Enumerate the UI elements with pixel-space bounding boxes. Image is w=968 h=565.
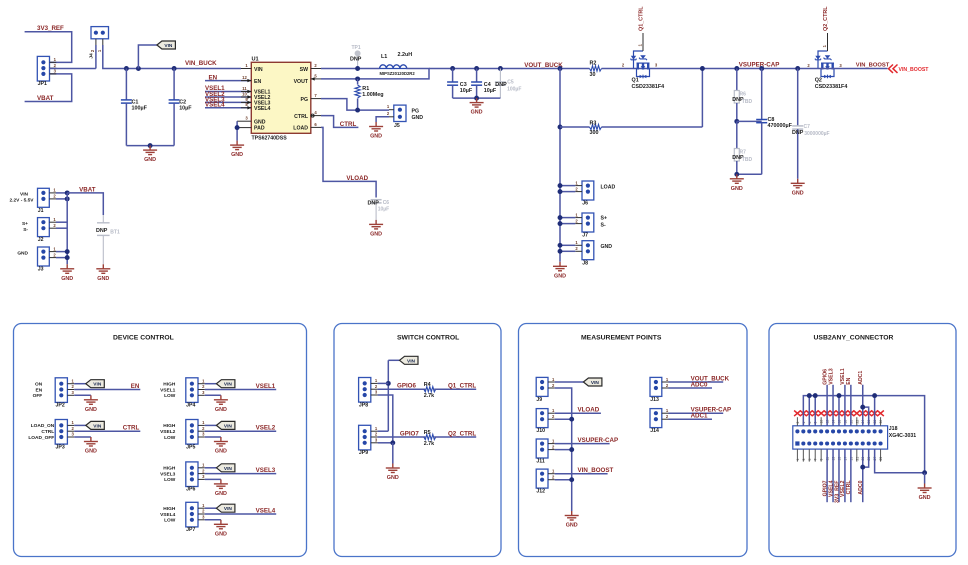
connector J9 [536, 377, 548, 396]
svg-text:J8: J8 [582, 260, 588, 266]
svg-text:VSEL1: VSEL1 [160, 387, 176, 393]
wire JP3 pin2 net CTRL [74, 430, 140, 432]
svg-text:TP1: TP1 [352, 45, 361, 51]
svg-text:Q2_CTRL: Q2_CTRL [448, 430, 476, 437]
svg-text:GND: GND [554, 273, 566, 279]
svg-text:10µF: 10µF [484, 88, 497, 94]
svg-text:GND: GND [215, 449, 227, 455]
svg-text:U1: U1 [252, 57, 259, 63]
svg-text:VIN: VIN [591, 380, 600, 386]
J18 pin dots [795, 429, 882, 445]
svg-text:VLOAD: VLOAD [346, 175, 368, 182]
capacitor C7 DNP [795, 66, 800, 71]
svg-text:GND: GND [231, 152, 243, 158]
svg-text:HIGH: HIGH [163, 423, 176, 429]
connector J5 [394, 105, 406, 121]
svg-text:GND: GND [370, 232, 382, 238]
wire JP2 pin2 net EN [74, 389, 140, 391]
svg-text:C5: C5 [507, 80, 514, 86]
svg-text:Q1_CTRL: Q1_CTRL [638, 6, 644, 31]
svg-text:DNP: DNP [792, 130, 804, 136]
wire J8 pins to bus [560, 244, 575, 246]
svg-text:DNP: DNP [495, 82, 507, 88]
J18 top pin stubs and numbers [797, 417, 880, 426]
net VLOAD wire at J10 [555, 412, 601, 414]
net ADC1 wire at J18 [863, 385, 869, 426]
net 3V3_REF wire at J18 [838, 449, 840, 502]
svg-text:S-: S- [23, 227, 28, 233]
ground at JP9 [386, 464, 400, 473]
net Q2_CTRL wire [434, 436, 476, 438]
ground below BT1 [96, 264, 110, 273]
power flag VIN at JP2 [74, 383, 86, 385]
svg-text:2: 2 [796, 422, 800, 424]
svg-text:GND: GND [215, 407, 227, 413]
svg-text:GND: GND [144, 157, 156, 163]
svg-text:GND: GND [85, 449, 97, 455]
net Q1_CTRL wire [434, 388, 476, 390]
wire R3 riser to rail [701, 69, 703, 128]
wire 3V3_REF to JP1 pin1 [25, 32, 72, 63]
svg-text:VIN_BOOST: VIN_BOOST [578, 467, 614, 474]
wire J9 pin2 to bus [555, 388, 572, 511]
svg-text:VSUPER-CAP: VSUPER-CAP [739, 62, 780, 69]
svg-text:VIN_BOOST: VIN_BOOST [899, 67, 930, 73]
connector J8 [582, 241, 594, 260]
wire J11 pin2 to bus [555, 449, 572, 451]
resistor R4 [424, 387, 436, 392]
svg-text:VSEL4: VSEL4 [256, 507, 276, 514]
panel USB2ANY_CONNECTOR [769, 324, 956, 557]
wire JP8 pin3 down [378, 395, 393, 445]
capacitor C3 [450, 66, 455, 71]
svg-text:VSEL4: VSEL4 [254, 106, 271, 112]
net VSUPER-CAP wire at J14 [669, 412, 724, 414]
svg-text:CTRL: CTRL [340, 121, 357, 128]
svg-text:J12: J12 [536, 489, 545, 495]
svg-text:J11: J11 [536, 459, 544, 465]
ground below C7 [791, 179, 805, 188]
svg-text:LOW: LOW [164, 393, 176, 399]
svg-text:GND: GND [61, 276, 73, 282]
svg-text:VIN: VIN [93, 423, 102, 429]
svg-text:S+: S+ [22, 221, 28, 227]
connector JP2 [55, 378, 67, 403]
svg-text:GND: GND [215, 491, 227, 497]
capacitor C5 DNP [498, 66, 503, 71]
ground at JP4 [214, 395, 228, 404]
svg-text:JP7: JP7 [186, 527, 195, 533]
wire JP4 pin2 net VSEL1 [205, 389, 276, 391]
svg-text:PAD: PAD [254, 126, 265, 132]
ground at bus bottom [553, 262, 567, 271]
wire JP6 pin2 net VSEL3 [205, 473, 276, 475]
svg-text:LOW: LOW [164, 435, 176, 441]
power flag VIN at JP3 [74, 424, 86, 426]
net VSEL1 wire at J18 [844, 385, 846, 426]
wire J18 pin4 up [814, 396, 816, 426]
svg-text:10: 10 [242, 91, 247, 96]
svg-text:S-: S- [601, 222, 606, 228]
svg-text:29: 29 [879, 457, 883, 461]
svg-text:VSEL4: VSEL4 [205, 102, 225, 109]
ground at JP6 [214, 479, 228, 488]
net GPIO6 / resistor R4 wire [378, 388, 426, 390]
svg-text:1.00Meg: 1.00Meg [362, 92, 383, 98]
wire SW to L1 [321, 68, 380, 70]
connector JP7 [186, 502, 198, 527]
svg-text:C8: C8 [768, 117, 775, 123]
net VSEL2 wire at J18 [844, 449, 846, 502]
wire JP8 pin1 to VIN bus [378, 382, 389, 384]
capacitor C8 [759, 66, 764, 71]
svg-text:22: 22 [855, 420, 859, 424]
svg-text:LOAD: LOAD [601, 184, 616, 190]
svg-text:7: 7 [814, 459, 818, 461]
connector J18 body [793, 426, 888, 449]
net GPIO6 wire at J18 [826, 385, 828, 426]
svg-text:Q1: Q1 [632, 78, 639, 84]
svg-text:VIN_BOOST: VIN_BOOST [856, 63, 890, 69]
connector J4 jumper [91, 27, 109, 39]
svg-text:EN: EN [846, 377, 852, 384]
net GPIO7 wire at J18 [826, 449, 828, 502]
svg-text:EN: EN [254, 79, 261, 85]
U1 left pin stubs [241, 68, 251, 70]
net GPIO7 / resistor R5 wire [378, 436, 426, 438]
wire J5 pin2 to ground [376, 117, 389, 122]
wire J7 pins to bus [560, 217, 575, 219]
U1 right pin stubs [311, 68, 321, 70]
svg-text:HIGH: HIGH [163, 506, 176, 512]
svg-text:GND: GND [85, 407, 97, 413]
svg-text:10µF: 10µF [179, 105, 192, 111]
wire J4 pin2 down, rail to U1 [103, 45, 241, 69]
svg-text:J5: J5 [394, 123, 400, 129]
net ADC1 wire at J14 [669, 418, 713, 420]
svg-text:VIN: VIN [407, 358, 416, 364]
svg-text:21: 21 [855, 457, 859, 461]
svg-text:VIN_BUCK: VIN_BUCK [185, 60, 217, 67]
svg-text:VIN: VIN [224, 382, 233, 388]
net VBAT wire to BT1 [67, 193, 103, 215]
svg-text:JP9: JP9 [359, 450, 368, 456]
svg-text:300: 300 [590, 130, 599, 136]
svg-text:ADC0: ADC0 [858, 480, 864, 494]
ground at J1 bus [60, 264, 74, 273]
wire J10 pin2 to bus [555, 418, 572, 420]
svg-text:VSEL2: VSEL2 [256, 425, 276, 432]
svg-text:GND: GND [792, 190, 804, 196]
svg-text:5: 5 [808, 459, 812, 461]
wire PG to J5 pin1 [321, 99, 389, 111]
svg-text:VOUT_BUCK: VOUT_BUCK [524, 62, 563, 69]
svg-text:BT1: BT1 [110, 230, 120, 236]
svg-text:J3: J3 [38, 267, 44, 273]
connector JP6 [186, 462, 198, 487]
svg-text:J6: J6 [582, 201, 588, 207]
net VIN_BOOST wire at J12 [555, 473, 608, 475]
wire J18 pin8 up [838, 396, 840, 426]
svg-text:C7: C7 [804, 124, 811, 130]
transistor Q2 CSD23381F4 [818, 51, 834, 77]
power flag VIN at JP5 [205, 424, 217, 426]
net VSEL3 wire to U1 [205, 101, 251, 103]
ground at JP5 [214, 437, 228, 446]
svg-text:GND: GND [412, 115, 424, 121]
svg-text:HIGH: HIGH [163, 382, 176, 388]
connector JP9 [359, 425, 371, 450]
svg-text:EN: EN [131, 383, 140, 390]
svg-text:DNP: DNP [96, 228, 108, 234]
svg-text:Q1_CTRL: Q1_CTRL [448, 383, 476, 390]
op-amp U1 TPS62740DSS body [251, 62, 310, 133]
power flag VIN [136, 66, 141, 71]
connector J3 [38, 247, 50, 266]
svg-text:XG4C-3031: XG4C-3031 [889, 433, 917, 439]
wire VOUT rail [429, 68, 590, 70]
svg-text:CTRL: CTRL [846, 480, 852, 495]
svg-text:GND: GND [387, 475, 399, 481]
wire VOUT_BUCK bus [558, 66, 563, 71]
svg-text:MEASUREMENT POINTS: MEASUREMENT POINTS [581, 334, 662, 341]
wire bottom ground net [875, 449, 925, 473]
connector J10 [536, 409, 548, 428]
connector JP8 [359, 378, 371, 403]
net CTRL wire [321, 116, 358, 128]
svg-text:S+: S+ [601, 216, 608, 222]
svg-text:GND: GND [370, 134, 382, 140]
svg-text:R5: R5 [424, 430, 431, 436]
wire Q2 to off-page [818, 68, 888, 70]
svg-text:VLOAD: VLOAD [578, 407, 600, 414]
svg-text:J7: J7 [582, 233, 588, 239]
svg-text:VIN: VIN [93, 382, 102, 388]
svg-text:PG: PG [412, 109, 420, 115]
svg-text:2.7k: 2.7k [424, 441, 435, 447]
svg-text:J13: J13 [650, 397, 659, 403]
connector JP5 [186, 420, 198, 445]
wire VIN bus to JP8 JP9 [387, 360, 389, 431]
svg-text:100µF: 100µF [132, 105, 148, 111]
svg-text:R3: R3 [590, 121, 597, 127]
svg-text:R4: R4 [424, 382, 431, 388]
resistor R3 [558, 125, 563, 130]
panel DEVICE CONTROL [14, 324, 307, 557]
net VSEL2 wire to U1 [205, 96, 251, 98]
svg-text:Q2: Q2 [815, 78, 822, 84]
svg-text:GND: GND [97, 276, 109, 282]
wire J3 pins to bus [56, 251, 67, 253]
svg-text:J14: J14 [650, 428, 659, 434]
svg-text:10: 10 [820, 420, 824, 424]
wire JP2 pin3 to ground [74, 394, 91, 396]
power flag VIN switch control [388, 359, 399, 361]
wire C8 bottom to ground node [737, 173, 762, 175]
svg-text:10µF: 10µF [378, 206, 390, 212]
svg-text:EN: EN [36, 387, 43, 393]
svg-text:LOAD: LOAD [293, 126, 308, 132]
capacitor C1 [124, 66, 129, 71]
svg-text:ADC0: ADC0 [691, 381, 708, 388]
resistor R1 [355, 76, 360, 81]
svg-text:VIN: VIN [20, 192, 29, 198]
ground below C6 [369, 220, 383, 229]
svg-text:GND: GND [215, 531, 227, 537]
wire J1 pins to bus [56, 192, 67, 194]
wire JP7 pin2 net VSEL4 [205, 513, 276, 515]
U1 GND PAD wires to ground [237, 120, 251, 122]
svg-text:VIN: VIN [254, 67, 263, 73]
svg-text:9: 9 [820, 459, 824, 461]
svg-text:OFF: OFF [33, 393, 43, 399]
power flag VIN at JP7 [205, 507, 217, 509]
panel SWITCH CONTROL [334, 324, 501, 557]
svg-text:11: 11 [242, 86, 247, 91]
testpoint TP1 DNP [355, 50, 361, 56]
svg-text:VSEL3: VSEL3 [256, 467, 276, 474]
ground below C1 C2 [148, 143, 153, 148]
resistor R7 DNP [736, 121, 738, 148]
svg-text:470000µF: 470000µF [768, 123, 793, 129]
svg-text:ADC1: ADC1 [858, 371, 864, 385]
svg-text:SW: SW [300, 67, 308, 73]
resistor R5 [424, 434, 436, 439]
svg-text:DEVICE CONTROL: DEVICE CONTROL [113, 334, 174, 341]
svg-text:TBD: TBD [742, 157, 753, 163]
ground at JP3 [84, 437, 98, 446]
connector JP1 [37, 56, 49, 81]
svg-text:CSD23381F4: CSD23381F4 [632, 84, 665, 90]
svg-text:GND: GND [471, 110, 483, 116]
svg-text:J1: J1 [38, 208, 44, 214]
svg-text:JP5: JP5 [186, 444, 195, 450]
svg-text:JP2: JP2 [56, 403, 65, 409]
net VLOAD wire from LOAD pin [321, 127, 376, 197]
connector J2 [38, 218, 50, 237]
connector JP3 [55, 420, 67, 445]
bus J1 to ground [66, 193, 68, 264]
battery BT1 DNP [102, 215, 104, 223]
connector J12 [536, 469, 548, 488]
wire J18 pin14 up [874, 396, 876, 426]
svg-text:VOUT: VOUT [294, 79, 309, 85]
svg-text:Q2_CTRL: Q2_CTRL [823, 6, 829, 31]
svg-text:ADC1: ADC1 [691, 413, 708, 420]
svg-text:VIN: VIN [224, 466, 233, 472]
svg-text:R1: R1 [362, 86, 369, 92]
svg-text:VIN: VIN [224, 506, 233, 512]
svg-text:VIN: VIN [224, 423, 233, 429]
wire JP3 pin3 to ground [74, 436, 91, 438]
off-page connector VIN_BOOST [889, 65, 898, 73]
wire top ground net to J18 [803, 396, 924, 473]
svg-text:LOW: LOW [164, 518, 176, 524]
svg-text:12: 12 [242, 75, 247, 80]
connector J6 [582, 181, 594, 200]
wire JP5 pin3 to ground [205, 436, 221, 438]
svg-text:SWITCH CONTROL: SWITCH CONTROL [397, 334, 459, 341]
svg-text:CTRL: CTRL [123, 425, 140, 432]
svg-text:GPIO6: GPIO6 [397, 383, 416, 390]
net VOUT_BUCK wire at J13 [669, 381, 724, 383]
net VSUPER-CAP wire at J11 [555, 443, 610, 445]
connector J7 [582, 213, 594, 232]
capacitor C6 DNP [371, 199, 382, 201]
svg-text:3000000µF: 3000000µF [804, 131, 829, 137]
wire J4 pin1 down to rail [95, 45, 97, 69]
wire J2 pins to bus [56, 221, 67, 223]
wire VBAT to JP1 pin3 [25, 74, 72, 102]
wire JP7 pin3 to ground [205, 519, 221, 521]
svg-text:LOW: LOW [164, 477, 176, 483]
connector JP4 [186, 378, 198, 403]
ground at measurement bus [565, 511, 579, 520]
wire J18 pin3 up [808, 396, 810, 426]
svg-text:100µF: 100µF [507, 86, 521, 92]
svg-text:JP8: JP8 [359, 402, 368, 408]
wire C1-C2 bottom [126, 145, 174, 147]
svg-text:GND: GND [566, 523, 578, 529]
svg-text:LOAD_OFF: LOAD_OFF [28, 435, 54, 441]
svg-text:J9: J9 [536, 397, 542, 403]
resistor R2 [590, 66, 602, 71]
connector J1 [38, 188, 50, 207]
power flag VIN at JP4 [205, 383, 217, 385]
svg-text:J2: J2 [38, 237, 44, 243]
connector J14 [650, 409, 662, 428]
svg-text:2.7k: 2.7k [424, 393, 435, 399]
svg-text:GND: GND [17, 251, 28, 257]
wire JP9 pin1 to VIN bus [378, 430, 389, 432]
svg-text:J4: J4 [89, 53, 95, 59]
transistor Q1 CSD23381F4 [634, 51, 650, 77]
ground below U1 [230, 141, 244, 150]
svg-text:30: 30 [590, 72, 596, 78]
svg-text:JP3: JP3 [56, 444, 65, 450]
wire J6 pins to bus [560, 185, 575, 187]
svg-text:DNP: DNP [350, 57, 362, 63]
svg-text:3: 3 [802, 459, 806, 461]
svg-text:J10: J10 [536, 428, 545, 434]
svg-text:CSD23381F4: CSD23381F4 [815, 84, 848, 90]
net VSEL1 wire to U1 [205, 91, 251, 93]
wire Q1 drain to node [702, 68, 818, 70]
net CTRL wire at J18 [850, 449, 852, 502]
svg-text:MIPSZ20120D2R2: MIPSZ20120D2R2 [380, 71, 416, 76]
net VSEL4 wire at J18 [832, 449, 834, 502]
svg-text:ON: ON [35, 382, 43, 388]
svg-text:L1: L1 [381, 54, 387, 60]
capacitor C2 [172, 66, 177, 71]
power flag VIN at JP6 [205, 467, 217, 469]
wire JP6 pin3 to ground [205, 478, 221, 480]
svg-text:LOAD_ON: LOAD_ON [31, 423, 55, 429]
capacitor C4 [474, 66, 479, 71]
svg-text:JP6: JP6 [186, 487, 195, 493]
svg-text:TPS62740DSS: TPS62740DSS [252, 135, 288, 141]
svg-text:1: 1 [796, 459, 800, 461]
svg-text:VSEL3: VSEL3 [828, 368, 834, 385]
svg-text:R2: R2 [590, 60, 597, 66]
wire L1 out to VOUT [321, 69, 429, 79]
svg-text:EN: EN [209, 74, 218, 81]
svg-text:VIN: VIN [164, 43, 173, 49]
svg-text:VSEL1: VSEL1 [256, 383, 276, 390]
net ADC0 wire at J13 [669, 387, 713, 389]
ground at J18 [924, 473, 926, 484]
wire C3 C4 bottom [453, 97, 501, 99]
